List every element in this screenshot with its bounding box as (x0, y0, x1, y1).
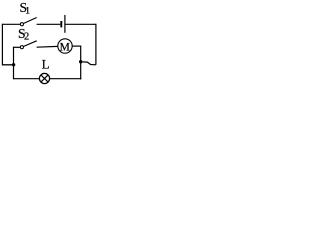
battery cell negative plate (60, 21, 62, 27)
switch S2 (20, 41, 36, 49)
wire top-left segment (2, 23, 20, 25)
svg-text:M: M (60, 42, 70, 54)
wire motor to right riser (72, 45, 81, 47)
wire S2 to motor (37, 45, 58, 48)
wire left rail (1, 24, 3, 66)
node junction left (12, 63, 15, 66)
wire left drop to bottom (13, 65, 15, 80)
wire left jog (2, 64, 13, 66)
wire battery to top-right corner (66, 23, 96, 25)
svg-text:L: L (42, 56, 50, 71)
wire right jog (81, 62, 96, 65)
node junction right (79, 60, 82, 63)
svg-text:S1: S1 (20, 0, 31, 17)
svg-text:S2: S2 (18, 26, 29, 42)
switch S1 (20, 18, 36, 26)
wire lamp to right riser (50, 78, 82, 80)
wire S1 to battery (37, 23, 61, 25)
wire S2 branch left (14, 46, 21, 48)
wire bottom-left segment (14, 78, 40, 80)
motor M (58, 39, 72, 54)
wire right rail (95, 24, 97, 65)
wire S2 branch riser (13, 47, 15, 65)
lamp L (39, 73, 49, 83)
battery cell positive plate (64, 15, 66, 33)
wire right riser (80, 46, 82, 80)
